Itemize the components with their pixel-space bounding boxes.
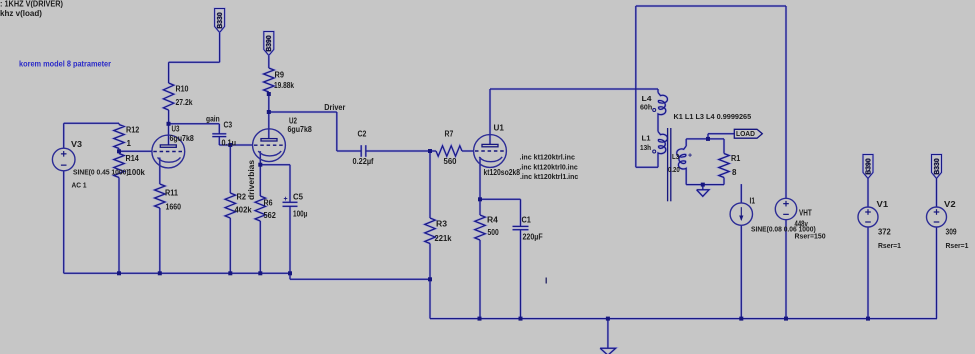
svg-text:562: 562 (264, 211, 277, 220)
svg-text:560: 560 (444, 157, 458, 166)
svg-text:1660: 1660 (166, 203, 182, 212)
svg-text:B330: B330 (215, 12, 224, 29)
svg-text:6gu7k8: 6gu7k8 (170, 134, 195, 143)
svg-text:221k: 221k (435, 234, 453, 243)
svg-text:13h: 13h (640, 143, 651, 152)
svg-text:SINE(0 0.45 1000): SINE(0 0.45 1000) (73, 168, 129, 177)
svg-text:Rser=1: Rser=1 (878, 241, 901, 250)
svg-text:B330: B330 (932, 158, 941, 175)
svg-text:khz v(load): khz v(load) (0, 8, 42, 18)
svg-text:LOAD: LOAD (736, 131, 755, 138)
svg-text:500: 500 (488, 228, 500, 237)
svg-text:100k: 100k (128, 168, 146, 177)
svg-text:V3: V3 (71, 140, 83, 149)
svg-text:8: 8 (732, 168, 737, 177)
svg-text:220µF: 220µF (523, 233, 543, 242)
svg-text:B390: B390 (264, 35, 273, 52)
svg-text:R7: R7 (445, 130, 454, 139)
svg-text:C5: C5 (293, 193, 304, 202)
svg-text:R14: R14 (126, 154, 140, 163)
svg-text:korem model 8 patrameter: korem model 8 patrameter (19, 60, 111, 69)
svg-text:.inc kt120ktrl1.inc: .inc kt120ktrl1.inc (520, 172, 578, 181)
svg-text:C2: C2 (358, 130, 367, 139)
svg-text:R10: R10 (176, 85, 189, 94)
svg-text:309: 309 (946, 228, 958, 237)
svg-text:.inc kt120ktrl.inc: .inc kt120ktrl.inc (520, 153, 575, 162)
svg-text:0.20: 0.20 (668, 165, 680, 174)
svg-text:Driver: Driver (324, 103, 345, 112)
svg-text:C3: C3 (224, 121, 233, 130)
svg-text:C1: C1 (522, 216, 532, 225)
svg-text:19.88k: 19.88k (274, 81, 294, 90)
svg-text:R4: R4 (487, 216, 498, 225)
svg-text:R11: R11 (165, 189, 179, 198)
svg-text:0.1u: 0.1u (222, 139, 237, 148)
svg-text:kt120so2k8: kt120so2k8 (484, 168, 521, 177)
svg-text:R9: R9 (275, 71, 285, 80)
svg-text:+: + (284, 196, 288, 203)
svg-text:27.2k: 27.2k (176, 98, 193, 107)
svg-text:R1: R1 (731, 154, 741, 163)
svg-text:.inc kt120ktrl0.inc: .inc kt120ktrl0.inc (520, 162, 578, 171)
svg-text:Rser=150: Rser=150 (795, 232, 826, 241)
svg-text:100µ: 100µ (293, 210, 308, 219)
svg-text:R2: R2 (237, 193, 247, 202)
svg-text:402k: 402k (235, 206, 253, 215)
svg-text:R12: R12 (126, 126, 140, 135)
svg-text:AC 1: AC 1 (72, 181, 87, 190)
svg-text:B390: B390 (863, 158, 872, 175)
svg-text:+: + (688, 153, 692, 160)
svg-text:K1 L1 L3 L4 0.9999265: K1 L1 L3 L4 0.9999265 (674, 112, 752, 121)
svg-text:L1: L1 (642, 134, 651, 143)
svg-text:gain: gain (206, 115, 220, 124)
svg-text:V1: V1 (877, 200, 889, 209)
svg-text:R3: R3 (436, 220, 448, 229)
svg-text:I1: I1 (750, 197, 756, 206)
svg-text:0.22µf: 0.22µf (353, 157, 374, 166)
svg-text:driverbias: driverbias (247, 159, 256, 200)
svg-text:I: I (545, 276, 547, 286)
svg-text:U3: U3 (172, 125, 180, 134)
svg-text:L3: L3 (672, 152, 679, 161)
svg-text:V2: V2 (944, 200, 956, 209)
svg-text:372: 372 (878, 228, 891, 237)
svg-text:60h: 60h (640, 103, 653, 112)
svg-text:R6: R6 (264, 199, 273, 208)
svg-text:VHT: VHT (799, 209, 812, 218)
svg-text:U1: U1 (494, 124, 505, 133)
svg-text:6gu7k8: 6gu7k8 (288, 125, 313, 134)
svg-text:Rser=1: Rser=1 (946, 241, 969, 250)
svg-text:1: 1 (127, 139, 132, 148)
